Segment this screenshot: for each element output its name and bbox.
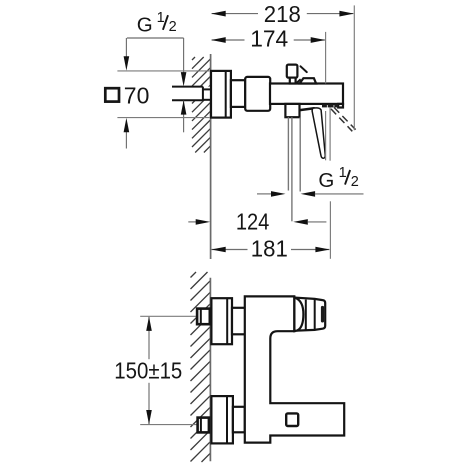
top inlet: union nut — [232, 308, 245, 335]
neck — [231, 80, 245, 107]
bottom inlet: union nut — [233, 407, 245, 433]
grip bar (dark) — [321, 306, 324, 323]
knob neck — [290, 78, 296, 84]
top bump trapezoid — [300, 78, 317, 83]
top inlet: pipe square behind wall — [140, 309, 210, 325]
supply pipe — [172, 87, 211, 101]
square 70 dimension — [105, 38, 209, 149]
wall hatching (top view) — [192, 57, 210, 153]
G1/2 bottom dimension — [257, 191, 364, 197]
aerator (dark) — [322, 104, 327, 107]
small notch diagonal — [296, 79, 301, 83]
extension line 218 (right) — [353, 5, 355, 130]
svg-text:1: 1 — [339, 165, 347, 181]
hose connection lines — [287, 117, 289, 190]
G 1/2 label (bottom) — [318, 165, 358, 192]
cartridge dome — [294, 297, 303, 331]
svg-text:1: 1 — [157, 10, 165, 26]
extension line 174 (right) — [325, 32, 327, 84]
svg-text:174: 174 — [250, 26, 288, 52]
svg-text:G: G — [318, 169, 334, 192]
svg-text:124: 124 — [236, 209, 270, 235]
G 1/2 label (top) — [137, 10, 177, 37]
spout face square — [286, 413, 298, 426]
svg-text:181: 181 — [251, 236, 288, 262]
dimension 174 — [211, 26, 325, 52]
faucet body (front view): stem + arm + spout — [245, 296, 344, 442]
svg-text:2: 2 — [169, 19, 177, 35]
extension line 181 (right) — [329, 108, 331, 161]
union nut — [245, 77, 270, 111]
svg-text:218: 218 — [264, 1, 301, 27]
bottom inlet: escutcheon — [211, 396, 233, 443]
escutcheon (wall plate) — [211, 71, 231, 118]
dimension 124 — [188, 209, 326, 235]
shower outlet below body — [285, 104, 299, 117]
svg-text:G: G — [137, 14, 153, 37]
spout end step — [338, 104, 343, 108]
dimension 150±15 — [114, 317, 182, 425]
cartridge knob — [287, 65, 298, 78]
svg-text:70: 70 — [124, 83, 150, 109]
svg-text:2: 2 — [351, 174, 359, 190]
lever handle (side view) — [300, 108, 314, 110]
dimension 218 — [211, 1, 354, 27]
handle (top view of lever) — [297, 298, 326, 331]
wall hatching (bottom view) — [191, 272, 211, 462]
main body (side view) — [270, 84, 343, 104]
top inlet: escutcheon — [211, 298, 232, 344]
water stream dashed lines — [331, 107, 356, 131]
svg-text:150±15: 150±15 — [114, 358, 182, 384]
square symbol — [105, 88, 119, 101]
diagonal tick near knob — [301, 66, 307, 72]
G1/2 top leader/arrows — [127, 38, 186, 132]
bottom inlet: pipe square behind wall — [140, 418, 209, 433]
wall face line (top view, also extension line for 124/181) — [210, 54, 212, 259]
wall face line (bottom view) — [209, 278, 211, 462]
dimension 181 — [211, 236, 330, 262]
